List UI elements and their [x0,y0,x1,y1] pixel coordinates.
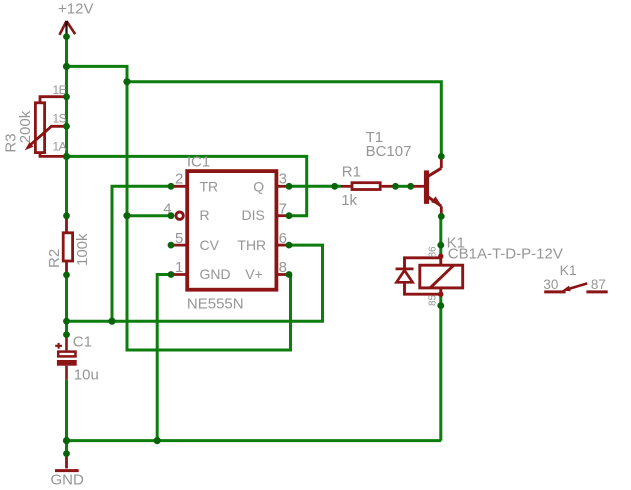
svg-text:1S: 1S [53,111,67,125]
contact pin 87 lead [586,290,607,293]
wire: +12V left vertical rail to R2 [65,37,68,216]
IC1 pin 1 GND stub [171,273,188,276]
junction: R2 top pin [63,212,70,219]
K1 coil top link to diode [405,258,441,268]
T1 base pin stub [411,185,424,188]
K1 coil pin 85 dot [438,292,443,297]
svg-text:R1: R1 [342,164,361,181]
junction: ground rail left [63,437,70,444]
junction: IC1 pin 3 [286,183,293,190]
transistor T1 BC107 [427,157,442,216]
flyback diode of K1 [396,269,414,282]
junction: +12V supply pin [63,33,70,40]
svg-text:1k: 1k [341,192,357,209]
svg-text:100k: 100k [74,233,91,266]
relay contact K1 [544,283,608,292]
svg-text:Q: Q [253,178,264,194]
K1 coil bottom link to diode [405,282,441,294]
C1 plus sign [55,343,62,349]
junction: pin 4 branch on x127 [123,212,130,219]
wire: bottom y321 line to pin 6 THR [67,245,323,321]
C1 bottom plate [57,360,77,366]
svg-text:8: 8 [279,259,287,276]
contact pin 30 lead [544,290,565,293]
capacitor C1 (polarized) [55,335,75,380]
junction: relay coil bottom net [437,302,444,309]
IC1 pin 7 DIS stub [276,214,290,217]
contact moving arm [568,283,587,289]
wire: T1 emitter down to relay coil [439,216,442,256]
svg-text:R2: R2 [46,249,63,268]
relay K1 coil [405,256,463,294]
junction: y321 line left end [63,318,70,325]
junction: TR branch on y321 [108,318,115,325]
svg-text:5: 5 [175,230,183,247]
junction: relay coil top net [437,242,444,249]
svg-text:85: 85 [427,294,438,306]
K1 coil pin 86 dot [438,254,443,259]
svg-text:V+: V+ [245,266,263,282]
svg-text:DIS: DIS [242,207,265,223]
junction: IC1 pin 4 [168,212,175,219]
svg-text:10u: 10u [74,367,99,384]
wire: y82 feed to transistor collector [127,82,441,156]
potentiometer R3 body [29,97,65,157]
T1 emitter arrowhead [431,196,441,205]
junction: IC1 pin 2 [168,183,175,190]
svg-text:1: 1 [175,259,183,276]
junction: collector feed tee [123,78,130,85]
junction: IC1 pin 8 [286,271,293,278]
R3 pin 1E lead [40,97,64,103]
timer IC1 NE555N box [187,171,276,290]
wire: R2 bottom to C1 top [65,275,68,335]
T1 emitter line [428,197,442,207]
resistor R1 [341,183,424,190]
supply +12V pin stub [65,21,67,39]
junction: R2 bottom pin [63,272,70,279]
svg-text:R: R [200,207,210,223]
svg-text:86: 86 [427,246,438,258]
svg-text:TR: TR [200,178,219,194]
svg-text:C1: C1 [73,334,92,351]
svg-text:87: 87 [591,277,606,292]
wire: C1 bottom down to ground rail and GND pin [65,380,68,454]
junction: GND symbol pin [63,450,70,457]
wire: R1 right to T1 base [396,185,411,188]
junction: +12V branch tee [63,63,70,70]
svg-text:7: 7 [279,200,287,217]
wire: bottom ground rail [67,439,442,442]
junction: T1 collector pin [438,153,445,160]
junction: Q net segment end [331,183,338,190]
junction: R3 pin 1E [63,93,70,100]
junction: R3 pin 1S [63,123,70,130]
junction: C1 top pin [63,331,70,338]
IC1 pin 4 R inversion bubble [176,212,183,219]
svg-text:CB1A-T-D-P-12V: CB1A-T-D-P-12V [448,246,563,263]
wire: pin 2 TR left and down [112,186,171,321]
svg-text:2: 2 [175,170,183,187]
svg-text:K1: K1 [560,262,577,278]
junction: node 1A tee [63,153,70,160]
R3 pin 1A lead [40,153,64,157]
svg-text:3: 3 [279,170,287,187]
svg-text:THR: THR [237,237,266,253]
svg-text:+12V: +12V [58,1,93,18]
IC1 pin 5 CV stub [171,244,188,247]
junction: IC1 pin 5 [168,242,175,249]
junction: pin 1 branch on ground rail [154,437,161,444]
junction: R1 right pin [392,183,399,190]
IC1 pin 8 V+ stub [276,273,290,276]
junction: IC1 pin 1 [168,271,175,278]
contact arm arrowhead [562,286,571,292]
wire: pin 4 R to +12V branch [127,214,171,217]
svg-text:GND: GND [51,472,85,489]
junction: IC1 pin 6 [286,242,293,249]
wire: pin 1 GND left and down to ground rail [157,275,171,441]
svg-text:NE555N: NE555N [187,295,244,312]
junction: T1 emitter pin [438,213,445,220]
IC1 pin 6 THR stub [276,244,290,247]
ground symbol GND [65,454,68,469]
svg-text:1A: 1A [53,140,67,154]
svg-text:CV: CV [200,237,220,253]
svg-text:6: 6 [279,230,287,247]
resistor R2 [63,216,72,275]
wire: node 1A across y156 down to pin 7 DIS [67,156,307,215]
wire: pin 3 Q to R1 left [289,185,341,188]
wire: +12V branch right, down x127, across y350 to pin 8 V+ [67,66,291,350]
svg-text:GND: GND [200,266,231,282]
junction: IC1 pin 7 [286,212,293,219]
wire: relay coil bottom down to ground rail [439,294,442,440]
svg-text:30: 30 [543,277,558,292]
R3 wiper arrowhead [25,142,34,150]
R3 wiper 1S lead [29,126,65,146]
IC1 pin 3 Q stub [276,185,290,188]
T1 base bar [424,170,429,204]
svg-text:IC1: IC1 [187,153,210,170]
supply symbol +12V arrow [60,21,76,35]
IC1 pin 2 TR stub [171,185,188,188]
svg-text:BC107: BC107 [366,143,412,160]
svg-text:200k: 200k [17,110,34,143]
T1 collector line [428,168,442,176]
junction: T1 base pin [407,183,414,190]
